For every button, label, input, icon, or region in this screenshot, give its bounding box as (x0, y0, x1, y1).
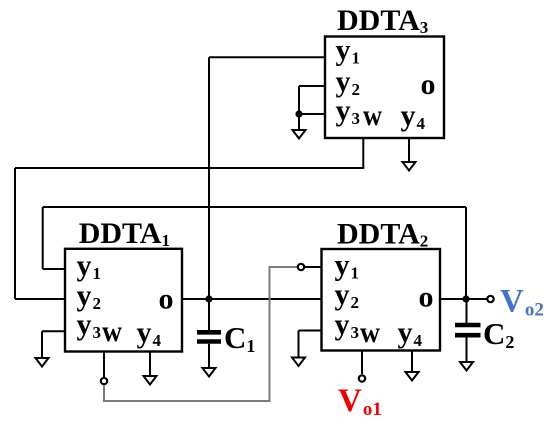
DDTA3 block U3 (325, 37, 444, 139)
svg-text:w: w (102, 315, 122, 348)
wire U3 w horizontal long (15, 167, 364, 169)
ground at C2 (460, 362, 473, 371)
junction U3 y2-y3 tie (295, 110, 302, 117)
wire long vertical from U3 y1 to node A (208, 57, 210, 299)
terminal circle at U1 w (101, 378, 107, 384)
wire U2 y4 pin down (411, 351, 413, 373)
capacitor C2 (455, 299, 481, 362)
svg-text:y4: y4 (137, 316, 162, 350)
svg-text:C1: C1 (224, 320, 255, 356)
wire U1 y3 horizontal (42, 330, 65, 332)
svg-text:y1: y1 (336, 34, 361, 68)
svg-text:o: o (159, 283, 174, 316)
wire U2 y3 down (298, 331, 300, 358)
terminal circle Vo2 (487, 296, 493, 302)
svg-text:Vo2: Vo2 (500, 284, 544, 321)
ground at U1 y4 (144, 376, 157, 385)
ground at U2 y3 (292, 358, 305, 367)
ground at U3 y2-y3 tie (293, 114, 306, 139)
wire U2 w pin down (361, 351, 363, 375)
wire U1 y4 pin down (149, 352, 151, 377)
wire into U1 y2 (15, 298, 65, 300)
wire feedback right vertical to node B (465, 207, 467, 299)
wire U3 y4 pin down (408, 138, 410, 162)
wire U3 y2 to y3 vertical (298, 86, 300, 114)
svg-text:w: w (363, 99, 382, 132)
wire into U1 y1 (43, 268, 65, 270)
svg-text:DDTA1: DDTA1 (79, 217, 170, 250)
svg-text:y4: y4 (401, 99, 426, 133)
svg-text:w: w (360, 316, 380, 349)
wire stub into U2 y1 (305, 266, 321, 268)
svg-text:DDTA2: DDTA2 (337, 218, 428, 251)
wire U3 y2 horizontal (299, 85, 325, 87)
wire left vertical to U1 y2 (14, 168, 16, 299)
DDTA1 block U1 (65, 249, 182, 352)
terminal circle at U2 y1 (298, 264, 304, 270)
svg-text:C2: C2 (483, 316, 514, 352)
svg-text:o: o (419, 281, 434, 314)
wire U2 o out (440, 298, 487, 300)
terminal circle Vo1 (359, 375, 365, 381)
ground at C1 (203, 368, 216, 377)
svg-text:Vo1: Vo1 (338, 383, 382, 420)
wire feedback left vertical to U1 y1 (42, 207, 44, 269)
wire U3 w pin down (362, 138, 364, 168)
wire U2 y3 horizontal (299, 330, 322, 332)
svg-text:y3: y3 (77, 308, 102, 342)
wire U3 y1 horizontal (209, 56, 325, 58)
svg-text:y3: y3 (336, 94, 361, 128)
junction node A (205, 295, 212, 302)
junction node B (462, 295, 469, 302)
svg-text:y2: y2 (335, 278, 360, 312)
wire U1 o to U2 y2 (182, 298, 321, 300)
wire gray U1 w to U2 y1 (104, 267, 297, 401)
wire U1 w pin down (103, 352, 105, 378)
wire U3 y3 horizontal (299, 113, 325, 115)
ground at U2 y4 (406, 372, 419, 381)
wire feedback top horizontal (43, 206, 466, 208)
svg-text:DDTA3: DDTA3 (337, 4, 428, 37)
svg-text:y3: y3 (335, 308, 360, 342)
svg-text:y1: y1 (77, 249, 102, 283)
svg-text:o: o (421, 68, 436, 101)
DDTA2 block U2 (322, 249, 441, 351)
wire U1 y3 down (41, 331, 43, 358)
svg-text:y4: y4 (398, 316, 423, 350)
ground at U3 y4 (403, 162, 416, 171)
capacitor C1 (197, 299, 221, 368)
ground at U1 y3 (36, 358, 49, 367)
